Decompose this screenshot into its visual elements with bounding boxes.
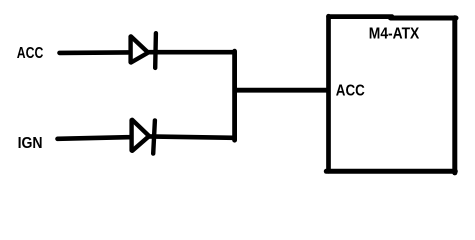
svg-text:ACC: ACC xyxy=(17,45,44,62)
svg-text:M4-ATX: M4-ATX xyxy=(369,26,420,43)
diode D2 (IGN) xyxy=(132,120,155,154)
wire (D1 cathode to vertical bus) xyxy=(147,50,234,55)
wire (ACC to D1 anode) xyxy=(60,50,129,55)
diode D1 (ACC) xyxy=(131,33,156,68)
wire (IGN to D2 anode) xyxy=(58,137,130,139)
svg-text:IGN: IGN xyxy=(18,135,43,152)
wire (D2 cathode to vertical bus) xyxy=(148,136,234,137)
svg-text:ACC: ACC xyxy=(336,83,365,100)
wire (bus to M4-ATX ACC pin) xyxy=(235,88,329,93)
wire (vertical bus joining D1 and D2 outputs) xyxy=(232,51,237,140)
M4-ATX power supply module U1 (box) xyxy=(326,16,456,173)
